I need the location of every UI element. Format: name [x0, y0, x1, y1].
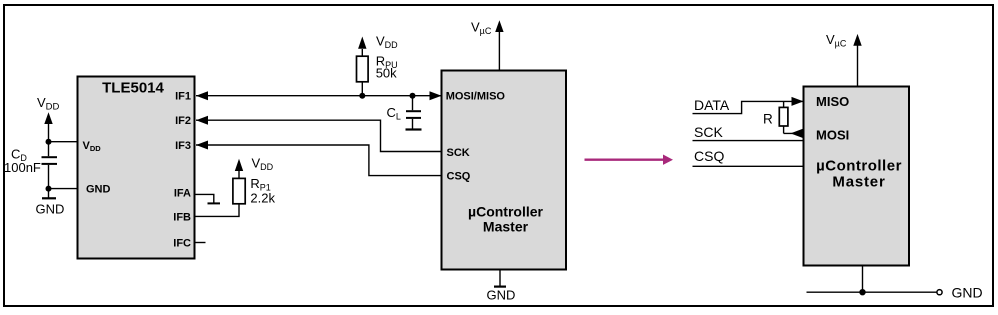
svg-text:TLE5014: TLE5014	[102, 80, 164, 97]
svg-text:GND: GND	[952, 285, 983, 301]
svg-text:IFC: IFC	[173, 237, 191, 249]
node CL junction	[410, 93, 416, 99]
resistor RPU	[361, 82, 363, 96]
ground symbol (left)	[48, 189, 50, 198]
resistor R	[783, 101, 785, 107]
wire U3 to GND rail	[862, 266, 864, 293]
svg-text:µController: µController	[468, 204, 544, 220]
wire VDD to pin	[49, 141, 79, 143]
supply VDD arrow (RP1)	[235, 159, 243, 171]
wire DATA to MISO	[693, 101, 804, 113]
arrowhead into MISO	[792, 97, 804, 106]
svg-text:100nF: 100nF	[4, 160, 41, 175]
wire IF1 / MOSI-MISO net	[196, 95, 442, 97]
svg-text:2.2k: 2.2k	[250, 190, 275, 205]
svg-text:GND: GND	[487, 287, 516, 302]
svg-text:DATA: DATA	[694, 97, 730, 113]
svg-text:SCK: SCK	[694, 124, 723, 140]
arrowhead into MOSI/MISO	[430, 91, 442, 100]
IC U1 TLE5014	[78, 77, 195, 259]
svg-text:GND: GND	[36, 202, 65, 217]
wire MOSI out	[784, 132, 804, 134]
IC U2 microcontroller master	[442, 71, 567, 270]
node GND junction (right)	[859, 289, 865, 295]
svg-text:50k: 50k	[376, 66, 397, 81]
svg-text:IF3: IF3	[175, 140, 191, 152]
svg-text:IFA: IFA	[174, 188, 191, 200]
wire GND rail	[807, 291, 937, 293]
capacitor CD	[48, 142, 50, 157]
svg-text:IF2: IF2	[175, 115, 191, 127]
IC U3 microcontroller master (right)	[804, 87, 910, 266]
supply VuC arrow (U2)	[498, 31, 500, 71]
wire SCK (right)	[693, 140, 804, 142]
wire IF3 to CSQ	[196, 145, 442, 176]
supply VDD arrow (left)	[44, 112, 52, 124]
svg-text:MOSI: MOSI	[816, 127, 849, 142]
arrowhead into IF2	[196, 116, 208, 125]
node RPU junction	[359, 93, 365, 99]
resistor RP1	[233, 178, 245, 203]
arrowhead into IF3	[196, 141, 208, 150]
wire GND to pin	[49, 188, 79, 190]
ground bar (IFA)	[208, 202, 221, 204]
ground symbol (U2)	[499, 270, 501, 286]
svg-text:MISO: MISO	[816, 94, 849, 109]
svg-text:GND: GND	[86, 184, 111, 196]
svg-text:IF1: IF1	[175, 91, 191, 103]
svg-text:Master: Master	[832, 173, 885, 190]
capacitor CL	[412, 96, 414, 111]
arrowhead out of MOSI	[791, 129, 803, 138]
supply VDD arrow (RPU)	[358, 37, 366, 49]
arrow equivalence (magenta)	[585, 158, 665, 160]
wire IFB to RP1	[195, 204, 240, 217]
terminal GND (open circle)	[937, 290, 942, 295]
wire IFA tie	[195, 194, 214, 202]
wire IF2 to SCK	[196, 120, 442, 151]
wire IFC stub	[195, 242, 206, 244]
svg-text:R: R	[763, 111, 773, 126]
svg-text:Master: Master	[483, 218, 529, 234]
wire CSQ (right)	[693, 165, 804, 167]
supply VuC arrow (U3)	[857, 45, 859, 87]
arrowhead into IF1	[196, 91, 208, 100]
svg-text:SCK: SCK	[447, 147, 470, 159]
node GND junction	[46, 186, 52, 192]
svg-text:IFB: IFB	[173, 211, 191, 223]
svg-text:µController: µController	[816, 158, 902, 175]
svg-text:CSQ: CSQ	[447, 170, 471, 182]
svg-text:CSQ: CSQ	[694, 148, 724, 164]
ground bar (CL)	[406, 128, 422, 130]
svg-text:MOSI/MISO: MOSI/MISO	[446, 91, 506, 103]
node VDD junction	[46, 139, 52, 145]
